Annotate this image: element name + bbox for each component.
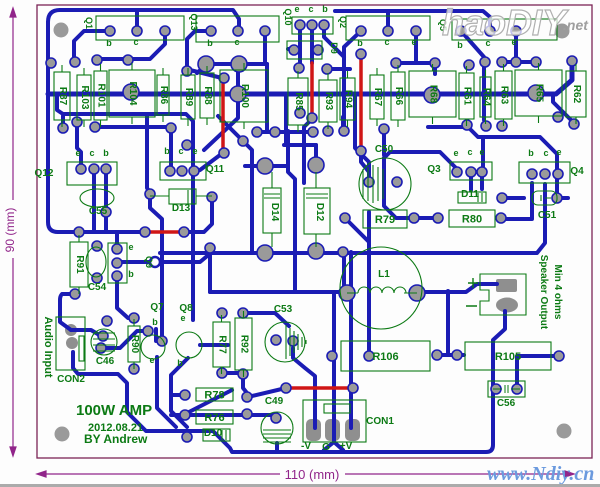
svg-text:Q13: Q13	[189, 13, 199, 30]
svg-text:C55: C55	[89, 206, 108, 217]
svg-text:c: c	[308, 4, 313, 14]
svg-text:CON2: CON2	[57, 374, 85, 385]
svg-text:b: b	[207, 38, 213, 48]
svg-text:110 (mm): 110 (mm)	[285, 467, 340, 482]
svg-text:e: e	[128, 242, 133, 252]
svg-text:L1: L1	[378, 269, 390, 280]
svg-text:Q2: Q2	[338, 16, 348, 28]
svg-text:C46: C46	[96, 356, 115, 367]
svg-text:R61: R61	[462, 87, 473, 106]
svg-text:b: b	[177, 358, 183, 368]
svg-text:100W AMP: 100W AMP	[76, 402, 152, 419]
svg-text:Speaker Output: Speaker Output	[538, 255, 549, 330]
svg-text:e: e	[149, 355, 154, 365]
svg-text:b: b	[128, 269, 134, 279]
svg-text:R106: R106	[372, 351, 398, 363]
svg-text:R89: R89	[183, 88, 194, 107]
svg-text:R85: R85	[293, 92, 304, 111]
svg-text:c: c	[234, 37, 239, 47]
svg-text:C51: C51	[538, 210, 557, 221]
svg-text:.net: .net	[563, 17, 589, 33]
svg-text:www.Ndiy.cn: www.Ndiy.cn	[487, 463, 594, 485]
svg-text:R100: R100	[239, 84, 250, 108]
svg-text:b: b	[106, 38, 112, 48]
svg-text:c: c	[178, 146, 183, 156]
svg-text:G: G	[322, 442, 330, 453]
svg-text:e: e	[556, 147, 561, 157]
svg-text:R105: R105	[495, 351, 521, 363]
svg-text:D12: D12	[314, 203, 325, 222]
svg-text:R67: R67	[372, 88, 383, 107]
svg-text:R103: R103	[79, 86, 90, 110]
svg-text:e: e	[75, 148, 80, 158]
svg-text:Q3: Q3	[427, 164, 441, 175]
svg-text:R91: R91	[74, 255, 85, 274]
svg-text:R87: R87	[57, 87, 68, 106]
svg-text:90 (mm): 90 (mm)	[3, 208, 17, 253]
svg-text:R94: R94	[343, 90, 354, 109]
svg-text:C50: C50	[375, 144, 394, 155]
svg-text:Q1: Q1	[84, 17, 94, 29]
svg-text:c: c	[133, 37, 138, 47]
svg-text:Q9: Q9	[144, 256, 154, 268]
svg-text:Q7: Q7	[150, 302, 164, 313]
svg-text:R104: R104	[127, 82, 138, 106]
svg-text:R68: R68	[428, 85, 439, 104]
svg-text:b: b	[152, 317, 158, 327]
svg-text:R64: R64	[481, 88, 492, 107]
svg-text:C54: C54	[88, 282, 107, 293]
svg-text:Min 4 ohms: Min 4 ohms	[552, 264, 563, 319]
svg-text:R76: R76	[204, 412, 224, 424]
svg-text:R92: R92	[239, 335, 250, 354]
svg-text:R101: R101	[96, 84, 107, 108]
svg-text:e: e	[294, 4, 299, 14]
svg-text:C53: C53	[274, 304, 293, 315]
svg-text:C56: C56	[497, 398, 516, 409]
svg-text:D11: D11	[461, 189, 479, 200]
svg-text:CON1: CON1	[366, 416, 394, 427]
svg-text:c: c	[89, 148, 94, 158]
svg-text:e: e	[479, 147, 484, 157]
svg-text:haoDIY: haoDIY	[442, 2, 569, 43]
svg-text:R63: R63	[499, 86, 510, 105]
svg-text:e: e	[411, 37, 416, 47]
svg-text:b: b	[528, 148, 534, 158]
svg-text:b: b	[164, 146, 170, 156]
svg-text:c: c	[543, 148, 548, 158]
svg-text:R93: R93	[323, 92, 334, 111]
svg-text:D9: D9	[329, 42, 339, 54]
svg-text:-V: -V	[301, 441, 311, 452]
svg-text:D13: D13	[172, 203, 191, 214]
svg-text:Q12: Q12	[35, 168, 54, 179]
svg-text:R78: R78	[204, 390, 224, 402]
svg-text:C49: C49	[265, 396, 284, 407]
svg-text:R80: R80	[462, 214, 482, 226]
svg-text:e: e	[453, 148, 458, 158]
svg-text:e: e	[192, 146, 197, 156]
svg-text:R65: R65	[534, 84, 545, 103]
svg-text:c: c	[467, 147, 472, 157]
svg-text:D10: D10	[204, 428, 223, 439]
svg-text:R77: R77	[217, 335, 228, 354]
svg-text:b: b	[103, 148, 109, 158]
svg-text:Q11: Q11	[206, 164, 225, 175]
svg-text:Q10: Q10	[283, 8, 293, 25]
svg-text:R66: R66	[393, 87, 404, 106]
svg-text:c: c	[384, 37, 389, 47]
svg-text:R62: R62	[571, 85, 582, 104]
svg-text:Q4: Q4	[570, 166, 584, 177]
svg-text:D14: D14	[269, 203, 280, 222]
svg-text:BY Andrew: BY Andrew	[84, 432, 148, 446]
svg-text:R90: R90	[129, 335, 140, 354]
svg-text:R79: R79	[375, 214, 395, 226]
svg-text:e: e	[180, 313, 185, 323]
svg-text:Audio Input: Audio Input	[42, 316, 54, 377]
svg-text:b: b	[322, 4, 328, 14]
svg-text:R86: R86	[158, 86, 169, 105]
svg-text:+V: +V	[340, 441, 353, 452]
svg-text:b: b	[357, 38, 363, 48]
svg-text:R88: R88	[202, 86, 213, 105]
